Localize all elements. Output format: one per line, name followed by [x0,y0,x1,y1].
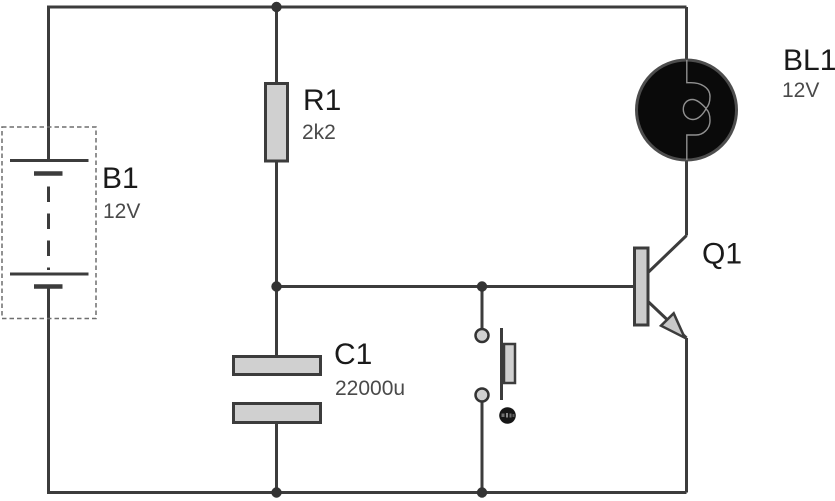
svg-text:12V: 12V [103,200,140,223]
svg-text:22000u: 22000u [335,377,405,400]
svg-text:Q1: Q1 [702,238,742,271]
svg-text:BL1: BL1 [783,44,835,77]
svg-text:2k2: 2k2 [302,121,336,144]
svg-text:12V: 12V [782,79,819,102]
svg-text:R1: R1 [303,84,341,117]
svg-text:C1: C1 [334,338,372,371]
svg-text:B1: B1 [102,162,139,195]
